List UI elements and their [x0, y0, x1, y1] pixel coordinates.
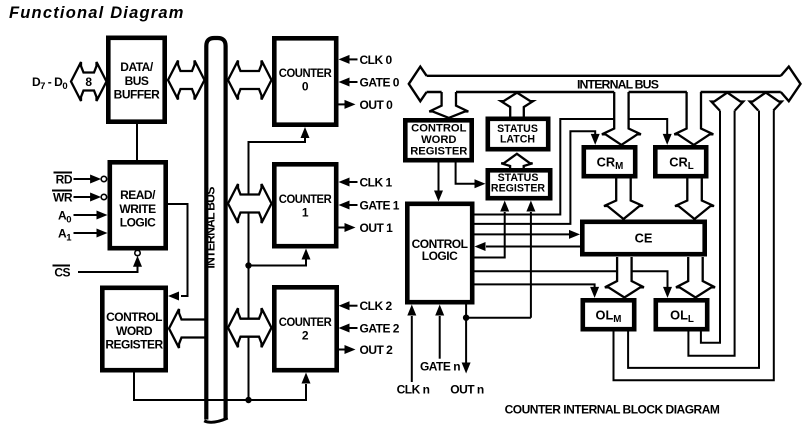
block: STATUS LATCH: [488, 119, 548, 149]
arrowhead: into CONTROL WORD REGISTER right side: [168, 292, 179, 301]
bus arrow head: OLL feedback into internal bus: [711, 93, 743, 111]
svg-text:Functional Diagram: Functional Diagram: [9, 4, 185, 22]
wire: CONTROL LOGIC to CRL (load): [475, 119, 668, 215]
block: DATA/BUS BUFFER: [108, 38, 164, 122]
internal bus left arrowhead: [409, 67, 427, 102]
svg-text:GATE 0: GATE 0: [360, 76, 400, 90]
bus arrow: CE to OLL: [676, 257, 715, 298]
wire+arrow: OUT 2 output: [339, 349, 346, 351]
svg-text:OUT n: OUT n: [450, 383, 484, 397]
internal bus bottom edge segments: [427, 91, 781, 93]
svg-text:GATE 2: GATE 2: [360, 322, 400, 336]
wire+arrow: GATE 0 input: [349, 81, 358, 83]
wire: OLM feedback outer (to internal bus): [614, 111, 774, 381]
svg-text:A0: A0: [58, 208, 71, 225]
wire: riser to COUNTER 0 bottom: [249, 137, 306, 400]
arrowhead: CLK n into CONTROL LOGIC bottom: [407, 305, 416, 316]
svg-text:8: 8: [85, 75, 92, 89]
arrowhead: into STATUS REGISTER left: [475, 179, 486, 188]
wire: OLM feedback inner (to internal bus): [628, 111, 759, 368]
wire: OUT n to STATUS REGISTER (2): [530, 212, 532, 318]
svg-text:0: 0: [302, 80, 309, 94]
bus arrow: internal bus to CONTROL WORD REGISTER (left): [169, 309, 207, 348]
arrowhead: A1: [97, 229, 108, 238]
arrowhead: into CRM top: [591, 134, 600, 145]
bus arrow: D7-D0 to DATA/BUS BUFFER (bidirectional): [71, 62, 107, 101]
bus arrow: CRM to CE: [604, 179, 643, 220]
svg-text:OUT 2: OUT 2: [360, 343, 394, 357]
junction dot: riser/counter1 branch: [245, 262, 251, 268]
block: CONTROL WORD REGISTER (left): [102, 288, 165, 370]
block: COUNTER 2: [274, 287, 336, 370]
bus arrow: internal bus to CONTROL WORD REGISTER (right): [429, 92, 468, 118]
wire: CE to CONTROL LOGIC: [486, 246, 580, 248]
arrowhead: into OLL top: [663, 287, 672, 298]
bus arrow: internal bus to COUNTER 2 (bidirectional): [228, 308, 272, 347]
svg-text:COUNTER: COUNTER: [279, 315, 332, 329]
svg-text:GATE 1: GATE 1: [360, 199, 400, 213]
bus arrow: internal bus to CRL: [674, 92, 713, 145]
wire: CONTROL WORD REGISTER output to counters (horizontal, crosses internal bus): [134, 373, 306, 401]
arrowhead: into STATUS REGISTER bottom (1): [500, 201, 509, 212]
arrowhead: into COUNTER 0 bottom: [301, 127, 310, 138]
wire+arrow: CLK 1 input: [349, 181, 358, 183]
wire: CONTROL LOGIC to OLM (latch): [475, 284, 595, 288]
internal bus (vertical band): [206, 38, 225, 420]
svg-text:CLK 0: CLK 0: [360, 53, 393, 67]
svg-text:CLK n: CLK n: [397, 383, 430, 397]
internal bus bottom closing curve: [204, 418, 228, 422]
svg-text:INTERNAL BUS: INTERNAL BUS: [204, 187, 218, 269]
wire: CWR to STATUS REGISTER: [456, 163, 475, 184]
svg-text:CE: CE: [635, 231, 653, 246]
junction dot: riser/counter2 branch: [245, 397, 251, 403]
wire+arrow: OUT 0 output: [339, 103, 346, 105]
wire: OLL feedback outer (to internal bus): [688, 111, 734, 356]
bus arrow: internal bus to COUNTER 0 (bidirectional): [228, 61, 272, 100]
wire: A1 input line: [74, 232, 99, 234]
wire+arrow: CLK 2 input: [349, 305, 358, 307]
internal bus right arrowhead: [781, 67, 801, 102]
arrowhead: into COUNTER 2 bottom: [302, 373, 311, 384]
svg-text:2: 2: [302, 328, 309, 342]
wire: GATE n input: [439, 316, 441, 359]
svg-text:CS: CS: [54, 266, 70, 280]
wire: CWR to CONTROL LOGIC: [438, 163, 440, 192]
svg-text:OUT 1: OUT 1: [360, 221, 394, 235]
wire+arrow: GATE 1 input: [349, 204, 358, 206]
arrowhead+bubble: WR: [90, 193, 101, 202]
bus arrow: internal bus to CRM: [602, 92, 641, 145]
wire: CONTROL LOGIC to CRM (load): [475, 131, 596, 224]
arrowhead: GATE n into CONTROL LOGIC bottom: [435, 305, 444, 316]
wire+arrow: CLK 0 input: [349, 58, 358, 60]
svg-text:STATUSLATCH: STATUSLATCH: [497, 123, 538, 145]
arrowhead: into STATUS REGISTER bottom (2): [526, 201, 535, 212]
junction dot: OUT n / status register branch: [463, 315, 469, 321]
wire: OUT n output: [465, 305, 467, 363]
svg-text:COUNTER INTERNAL BLOCK DIAGRAM: COUNTER INTERNAL BLOCK DIAGRAM: [505, 403, 720, 417]
internal bus (horizontal, right half) top edge: [427, 75, 781, 77]
arrowhead: into COUNTER 1 bottom: [302, 249, 311, 260]
wire: OLL feedback inner (to internal bus): [701, 111, 720, 343]
block: CE counting element: [582, 222, 704, 254]
arrowhead+bubble: RD: [90, 175, 101, 184]
wire+arrow: GATE 2 input: [349, 327, 358, 329]
bus arrow: internal bus to COUNTER 1 (bidirectional): [228, 184, 272, 223]
wire: CONTROL LOGIC to STATUS REGISTER (1): [475, 212, 505, 258]
wire: CONTROL LOGIC to OLL (latch): [475, 271, 668, 288]
bus arrow: CRL to CE: [675, 179, 714, 220]
block: STATUS REGISTER: [488, 170, 550, 198]
svg-text:READ/WRITELOGIC: READ/WRITELOGIC: [119, 188, 156, 230]
bus arrow: STATUS LATCH to internal bus: [501, 93, 533, 117]
bus arrow: CE to OLM: [605, 257, 644, 298]
svg-text:STATUSREGISTER: STATUSREGISTER: [491, 172, 546, 195]
wire: A0 input line: [74, 214, 99, 216]
block: CONTROL WORD REGISTER (right): [405, 120, 471, 160]
arrowhead+bubble: CS: [133, 256, 142, 267]
svg-text:GATE n: GATE n: [420, 360, 460, 374]
block: READ/WRITE LOGIC: [110, 162, 166, 248]
wire: CLK n input: [411, 316, 413, 382]
wire+arrow: OUT 1 output: [339, 227, 346, 229]
svg-text:OUT 0: OUT 0: [360, 98, 394, 112]
block: OLM latch: [583, 300, 634, 329]
svg-text:1: 1: [302, 205, 309, 219]
wire: RD input line: [74, 178, 93, 180]
wire: DATA/BUS BUFFER to READ/WRITE LOGIC: [136, 124, 138, 160]
block: COUNTER 1: [274, 164, 336, 246]
arrowhead: CWR into CONTROL LOGIC top: [434, 191, 443, 202]
wire: CS input line: [78, 264, 138, 272]
bus arrow: DATA/BUS BUFFER to internal bus (bidirectional): [168, 61, 205, 100]
wire: branch to COUNTER 1 bottom: [249, 260, 307, 266]
svg-text:RD: RD: [56, 172, 73, 186]
block: CRL register: [655, 147, 706, 176]
svg-text:INTERNAL BUS: INTERNAL BUS: [577, 77, 659, 91]
svg-text:COUNTER: COUNTER: [279, 66, 332, 80]
bus arrow head: OLM feedback into internal bus: [750, 93, 782, 111]
wire: WR input line: [74, 196, 93, 198]
wire: READ/WRITE LOGIC to CONTROL WORD REGISTER: [168, 204, 188, 296]
svg-text:CLK 1: CLK 1: [360, 176, 393, 190]
arrowhead: OUT n output (down): [462, 363, 471, 374]
arrowhead: into OLM top: [590, 287, 599, 298]
block: COUNTER 0: [274, 38, 336, 124]
block: CONTROL LOGIC: [407, 204, 472, 302]
svg-text:D7 - D0: D7 - D0: [32, 75, 67, 92]
svg-text:WR: WR: [53, 190, 73, 204]
arrowhead: A0: [97, 211, 108, 220]
bus arrow: STATUS REGISTER to STATUS LATCH: [501, 154, 532, 168]
arrowhead: into CE left: [569, 230, 580, 239]
block: CRM register: [584, 147, 635, 176]
arrowhead: into CRL top: [663, 134, 672, 145]
svg-text:CLK 2: CLK 2: [360, 299, 393, 313]
svg-text:A1: A1: [58, 226, 72, 243]
svg-text:COUNTER: COUNTER: [279, 192, 332, 206]
wire: CONTROL LOGIC to CE: [475, 233, 571, 235]
wire: OUT n branch to STATUS REGISTER: [466, 317, 531, 319]
block: OLL latch: [656, 300, 707, 329]
arrowhead: into CONTROL LOGIC right (from CE): [475, 242, 486, 251]
